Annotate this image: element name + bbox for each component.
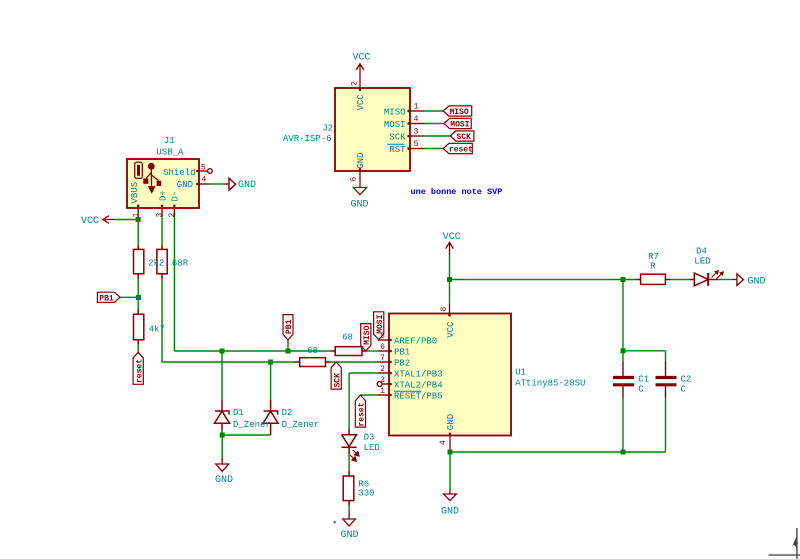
svg-text:VCC: VCC	[443, 232, 461, 243]
svg-text:D+: D+	[158, 190, 168, 201]
svg-text:5: 5	[201, 164, 206, 173]
svg-text:68: 68	[307, 346, 318, 356]
svg-text:1: 1	[132, 213, 141, 218]
svg-text:GND: GND	[446, 414, 456, 430]
svg-text:2: 2	[351, 81, 360, 86]
svg-text:3: 3	[155, 213, 164, 218]
svg-text:3: 3	[414, 128, 419, 137]
svg-text:LED: LED	[364, 443, 380, 453]
svg-text:6: 6	[380, 343, 385, 352]
svg-text:MISO: MISO	[450, 108, 469, 117]
svg-text:R: R	[650, 262, 656, 272]
svg-text:VBUS: VBUS	[130, 182, 140, 204]
svg-text:GND: GND	[441, 507, 459, 518]
svg-text:D_Zener: D_Zener	[282, 420, 320, 430]
svg-text:1: 1	[380, 387, 385, 396]
svg-text:C1: C1	[638, 375, 649, 385]
svg-text:MOSI: MOSI	[376, 314, 385, 333]
svg-text:GND: GND	[356, 153, 366, 169]
svg-text:C: C	[638, 384, 644, 394]
svg-text:D-: D-	[170, 191, 180, 202]
svg-text:4: 4	[439, 440, 448, 445]
svg-text:PB1: PB1	[285, 319, 294, 334]
svg-text:GND: GND	[748, 277, 766, 288]
svg-text:VCC: VCC	[446, 321, 456, 338]
svg-text:GND: GND	[238, 180, 256, 191]
svg-text:GND: GND	[340, 530, 358, 541]
svg-text:VCC: VCC	[81, 216, 99, 227]
svg-text:SCK: SCK	[457, 133, 472, 142]
svg-text:GND: GND	[177, 180, 193, 190]
svg-text:2: 2	[380, 365, 385, 374]
svg-text:LED: LED	[694, 257, 710, 267]
svg-text:4: 4	[201, 176, 206, 185]
svg-text:2: 2	[168, 213, 177, 218]
svg-text:5: 5	[414, 140, 419, 149]
svg-text:GND: GND	[350, 200, 368, 211]
svg-text:D1: D1	[233, 408, 244, 418]
svg-text:68: 68	[342, 333, 353, 343]
svg-text:RESET/PB5: RESET/PB5	[394, 392, 443, 402]
svg-text:MISO: MISO	[363, 325, 372, 344]
svg-text:SCK: SCK	[389, 132, 406, 142]
svg-text:MOSI: MOSI	[450, 121, 469, 130]
svg-text:C2: C2	[681, 375, 692, 385]
svg-text:1: 1	[414, 103, 419, 112]
svg-text:XTAL1/PB3: XTAL1/PB3	[394, 370, 443, 380]
svg-text:D2: D2	[282, 408, 293, 418]
svg-text:RST: RST	[389, 145, 406, 155]
svg-text:PB1: PB1	[394, 348, 410, 358]
svg-text:reset: reset	[358, 402, 367, 426]
svg-text:8: 8	[440, 307, 449, 312]
svg-text:7: 7	[380, 354, 385, 363]
svg-text:reset: reset	[449, 146, 473, 155]
svg-text:VCC: VCC	[352, 53, 370, 64]
svg-text:reset: reset	[135, 359, 144, 383]
svg-text:D3: D3	[364, 433, 375, 443]
svg-text:U1: U1	[515, 367, 526, 377]
svg-text:6: 6	[350, 177, 359, 182]
svg-text:AREF/PB0: AREF/PB0	[394, 337, 437, 347]
svg-text:Shield: Shield	[163, 168, 195, 178]
svg-text:PB2: PB2	[394, 359, 410, 369]
svg-text:D4: D4	[696, 246, 707, 256]
svg-text:4k7: 4k7	[149, 325, 165, 335]
svg-text:J1: J1	[164, 136, 175, 146]
svg-text:GND: GND	[215, 475, 233, 486]
svg-text:AVR-ISP-6: AVR-ISP-6	[283, 134, 332, 144]
svg-text:330: 330	[358, 489, 374, 499]
svg-text:D_Zener: D_Zener	[233, 420, 271, 430]
svg-text:2k2: 2k2	[148, 259, 164, 269]
svg-text:3: 3	[380, 376, 385, 385]
svg-text:USB_A: USB_A	[156, 147, 184, 157]
svg-text:MOSI: MOSI	[384, 120, 406, 130]
svg-text:C: C	[681, 384, 687, 394]
svg-text:R7: R7	[648, 252, 659, 262]
svg-text:SCK: SCK	[333, 373, 342, 388]
svg-text:4: 4	[414, 115, 419, 124]
svg-text:ATtiny85-20SU: ATtiny85-20SU	[515, 378, 585, 388]
svg-text:VCC: VCC	[356, 94, 366, 111]
svg-text:MISO: MISO	[384, 107, 406, 117]
svg-text:une bonne note SVP: une bonne note SVP	[411, 187, 503, 197]
svg-text:PB1: PB1	[99, 295, 114, 304]
svg-text:J2: J2	[322, 124, 333, 134]
svg-text:XTAL2/PB4: XTAL2/PB4	[394, 381, 443, 391]
svg-text:68R: 68R	[172, 259, 189, 269]
